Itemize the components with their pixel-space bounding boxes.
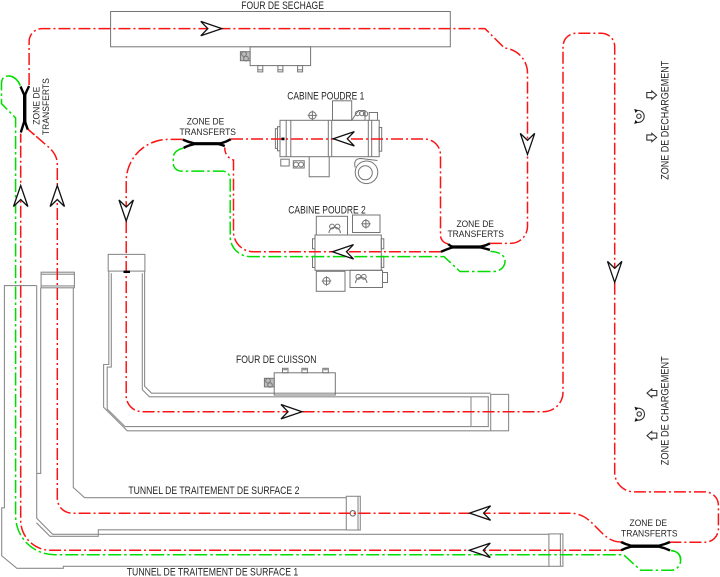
chargement rotation icon bbox=[635, 407, 645, 422]
wire joint at bottom-right transfer right prong bbox=[670, 541, 680, 543]
small black dot cabine 1 left bbox=[282, 138, 285, 141]
cabine 1 crosshair bbox=[309, 112, 316, 119]
svg-text:CABINE POUDRE 2: CABINE POUDRE 2 bbox=[288, 204, 366, 216]
four de cuisson tunnel top cap bbox=[108, 254, 145, 271]
four de sechage burner box bbox=[250, 47, 311, 66]
cabine 1 top right box bbox=[369, 113, 377, 121]
red wire: surface 1 return bbox=[21, 134, 621, 551]
cabine 1 top right motor bbox=[352, 111, 365, 121]
four de cuisson tunnel divider bbox=[470, 397, 472, 427]
arrow right in cuisson bbox=[281, 405, 302, 419]
svg-text:TUNNEL DE TRAITEMENT DE SURFAC: TUNNEL DE TRAITEMENT DE SURFACE 2 bbox=[128, 485, 299, 497]
cabine poudre 2 group bbox=[313, 215, 388, 291]
cabine 2 body bbox=[315, 235, 381, 270]
tunnel surface 1 outline bbox=[2, 286, 549, 569]
svg-text:TRANSFERTS: TRANSFERTS bbox=[41, 78, 51, 135]
dechargement rotation icon bbox=[634, 109, 644, 124]
tunnel surface 2 outline bbox=[37, 288, 347, 537]
svg-text:ZONE DE CHARGEMENT: ZONE DE CHARGEMENT bbox=[660, 356, 672, 465]
dechargement arrow icon top bbox=[647, 91, 657, 99]
four de sechage burner motor bbox=[240, 52, 250, 61]
four de sechage feet bbox=[258, 66, 263, 72]
red wire: main loop through cuisson and right side bbox=[126, 33, 718, 542]
cabine 1 right end plate bbox=[379, 128, 382, 152]
red wire: sechage line from top-left transfer to right-middle transfer bbox=[29, 29, 527, 244]
cabine 1 left end plate bbox=[278, 127, 281, 151]
transfer zone left-middle symbol bbox=[183, 139, 231, 148]
dechargement arrow icon bottom bbox=[647, 133, 657, 141]
svg-text:ZONE DE: ZONE DE bbox=[456, 219, 494, 229]
cabine 1 blower bbox=[355, 161, 378, 184]
arrow left surface 1 return bbox=[469, 543, 490, 557]
cabine 1 top box bbox=[333, 101, 352, 121]
svg-text:ZONE DE: ZONE DE bbox=[630, 518, 668, 528]
svg-text:TRANSFERTS: TRANSFERTS bbox=[447, 229, 504, 239]
transfer zone top-left symbol bbox=[21, 86, 30, 133]
svg-text:CABINE POUDRE 1: CABINE POUDRE 1 bbox=[287, 91, 364, 103]
svg-text:ZONE DE: ZONE DE bbox=[32, 87, 42, 125]
arrow right in sechage bbox=[201, 21, 222, 35]
wire joint at top-left transfer green prong bbox=[9, 76, 21, 86]
cabine 1 bottom motor bbox=[293, 161, 304, 168]
red wire: cabine 2 branch bbox=[225, 148, 441, 252]
chargement arrow icon top bbox=[647, 389, 657, 397]
cabine 1 bottom small box bbox=[281, 159, 289, 166]
arrow left surface 2 return bbox=[470, 506, 491, 520]
wire joint at top-left transfer lower prongs bbox=[21, 129, 35, 142]
cabine 2 top right box bbox=[353, 215, 381, 233]
small black tick on cuisson tunnel cap bbox=[124, 271, 131, 273]
arrow left in cabine 1 bbox=[333, 132, 354, 146]
four de cuisson tunnel end cap bbox=[491, 394, 509, 430]
svg-text:TRANSFERTS: TRANSFERTS bbox=[621, 528, 678, 538]
arrow left in cabine 2 bbox=[333, 245, 354, 259]
tunnel surface 2 top cap bbox=[41, 272, 74, 288]
arrow down right side bbox=[608, 261, 622, 282]
arrow up left line 2 bbox=[50, 186, 64, 207]
chargement arrow icon bottom bbox=[647, 431, 657, 439]
cabine 1 body bbox=[280, 120, 379, 156]
green wire: middle bypass between transfers bbox=[173, 148, 505, 271]
svg-text:TRANSFERTS: TRANSFERTS bbox=[179, 127, 236, 137]
red wire: cabine 1 branch bbox=[231, 139, 448, 244]
arrow down from sechage to right transfer bbox=[520, 133, 534, 154]
four de cuisson tunnel outer wall bbox=[104, 271, 491, 431]
wire joint at bottom-right transfer green prong bbox=[671, 551, 681, 561]
cabine 2 bottom right box bbox=[350, 270, 383, 287]
svg-text:ZONE DE: ZONE DE bbox=[187, 117, 225, 127]
svg-text:FOUR DE SECHAGE: FOUR DE SECHAGE bbox=[241, 0, 324, 12]
svg-text:ZONE DE DECHARGEMENT: ZONE DE DECHARGEMENT bbox=[660, 60, 672, 179]
transfer zone bottom-right symbol bbox=[621, 542, 670, 550]
arrow down to cuisson bbox=[119, 200, 133, 221]
four de cuisson tunnel inner wall bbox=[107, 273, 488, 426]
solid junction connectors bbox=[21, 129, 680, 542]
four de cuisson burner box bbox=[274, 373, 335, 395]
cabine 1 bottom mid box bbox=[309, 157, 329, 177]
svg-text:TUNNEL DE TRAITEMENT DE SURFAC: TUNNEL DE TRAITEMENT DE SURFACE 1 bbox=[127, 567, 299, 577]
cabine 2 top left box bbox=[316, 216, 347, 235]
four de cuisson burner motor bbox=[264, 378, 274, 387]
cabine poudre 1 group bbox=[275, 101, 381, 184]
transfer zone right-middle symbol bbox=[441, 243, 490, 251]
svg-text:FOUR DE CUISSON: FOUR DE CUISSON bbox=[236, 354, 317, 366]
cabine 2 bottom left box bbox=[316, 271, 345, 291]
tunnel surface 2 end cap bbox=[346, 496, 360, 530]
four de sechage body bbox=[111, 12, 451, 47]
tunnel surface 1 end cap bbox=[549, 534, 563, 566]
cabine 2 side flanges bbox=[313, 239, 316, 249]
red wire: surface 2 return bbox=[28, 129, 621, 542]
arrow up left line 1 bbox=[14, 186, 28, 207]
